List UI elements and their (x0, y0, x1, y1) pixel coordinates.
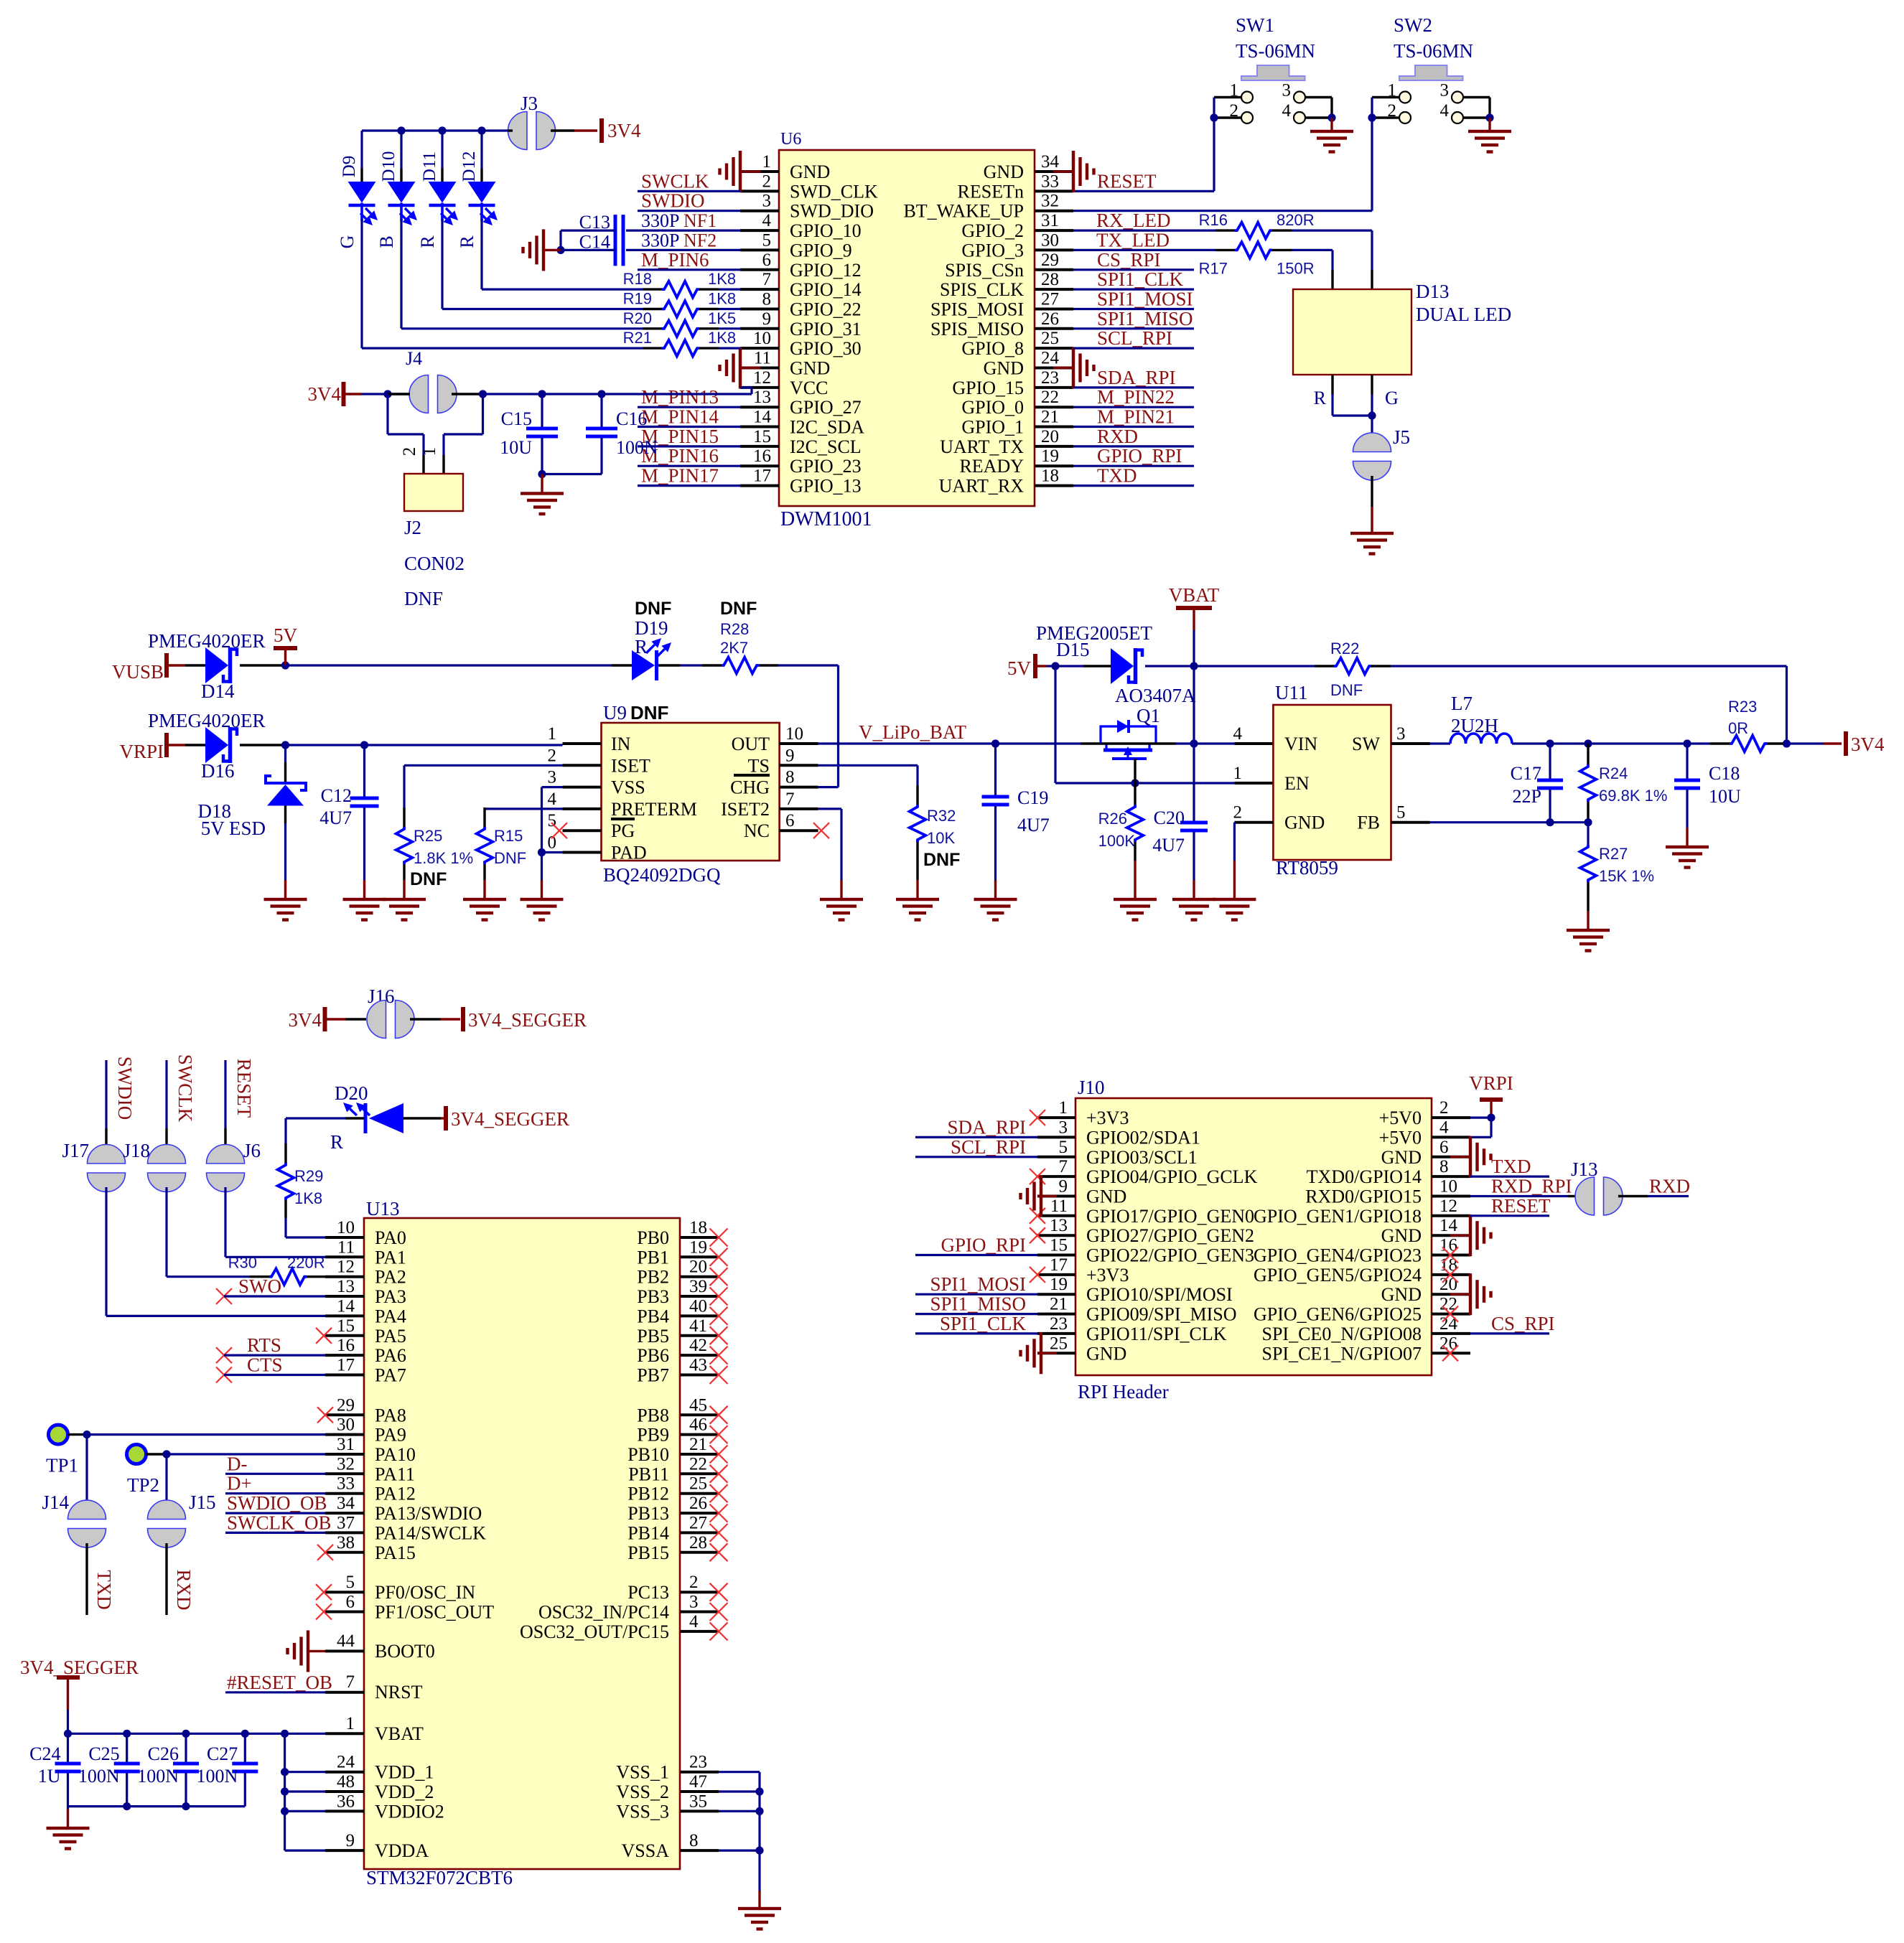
capacitor C12 4U7 (319, 745, 378, 880)
U13 pin 39 PB3 (637, 1277, 719, 1307)
svg-text:SPI_CE0_N/GPIO08: SPI_CE0_N/GPIO08 (1262, 1324, 1422, 1344)
svg-text:M_PIN17: M_PIN17 (641, 465, 719, 487)
svg-text:J18: J18 (123, 1140, 150, 1161)
svg-text:SW2: SW2 (1394, 14, 1432, 36)
svg-text:VDD_1: VDD_1 (375, 1762, 434, 1783)
svg-text:GPIO_GEN5/GPIO24: GPIO_GEN5/GPIO24 (1254, 1265, 1422, 1286)
svg-text:21: 21 (1041, 408, 1059, 427)
svg-text:GPIO_2: GPIO_2 (961, 220, 1024, 241)
svg-text:SPI1_MISO: SPI1_MISO (1097, 308, 1193, 329)
svg-text:PMEG4020ER: PMEG4020ER (148, 710, 266, 731)
svg-text:GPIO_3: GPIO_3 (961, 240, 1024, 261)
svg-text:3V4: 3V4 (1851, 734, 1885, 755)
U6 pin 26 SPIS_MISO (930, 309, 1073, 340)
svg-text:PB1: PB1 (637, 1247, 669, 1268)
U6 pin 11 GND (740, 349, 830, 379)
svg-text:43: 43 (689, 1356, 707, 1375)
net label M_PIN15 (641, 426, 719, 447)
ground at R32 (896, 880, 939, 922)
U6 pin 1 GND (740, 152, 830, 182)
ground at C20 (1172, 880, 1215, 922)
svg-text:4: 4 (689, 1612, 699, 1631)
svg-text:TXD: TXD (1491, 1156, 1531, 1177)
no-connect PB13 (710, 1504, 728, 1522)
U11 pin 2 GND (1233, 803, 1325, 833)
svg-text:D15: D15 (1056, 639, 1090, 660)
J10 pin 24 SPI_CE0_N/GPIO08 (1262, 1314, 1470, 1344)
wire R20 to pin (699, 327, 740, 329)
U13 pin 11 PA1 (325, 1237, 406, 1268)
svg-text:VUSB: VUSB (112, 661, 164, 683)
net label #RESET_OB (225, 1672, 332, 1693)
svg-text:7: 7 (1059, 1157, 1068, 1176)
junction VSS_3 (755, 1807, 763, 1815)
no-connect OSC32_IN/PC14 (710, 1603, 728, 1621)
test point TP1 (46, 1425, 78, 1476)
svg-text:SWCLK: SWCLK (174, 1054, 196, 1123)
power 3V4 at J3 (574, 118, 641, 143)
svg-text:69.8K 1%: 69.8K 1% (1599, 787, 1667, 805)
U6 pin 34 GND (984, 152, 1073, 182)
U13 pin 24 VDD_1 (325, 1753, 434, 1783)
svg-text:23: 23 (1041, 368, 1059, 388)
svg-text:3: 3 (1396, 724, 1406, 744)
svg-text:I2C_SCL: I2C_SCL (790, 436, 862, 457)
ground at J10 pin 6 (1450, 1136, 1493, 1178)
junction D11 rail (438, 126, 446, 134)
svg-text:7: 7 (346, 1672, 355, 1692)
svg-text:3V4_SEGGER: 3V4_SEGGER (20, 1657, 139, 1678)
svg-text:25: 25 (1041, 329, 1059, 348)
U13 pin 46 PB9 (637, 1415, 719, 1446)
no-connect J10 pin 7 (1030, 1169, 1045, 1184)
svg-text:100K: 100K (1098, 832, 1136, 850)
svg-text:4: 4 (1233, 724, 1243, 744)
svg-text:1K8: 1K8 (708, 270, 736, 288)
svg-text:1.8K 1%: 1.8K 1% (414, 849, 473, 867)
svg-text:3: 3 (689, 1593, 699, 1612)
svg-text:PA15: PA15 (375, 1542, 416, 1563)
svg-text:VBAT: VBAT (375, 1723, 424, 1744)
wire M_PIN6 (638, 268, 740, 271)
no-connect PB8 (710, 1406, 728, 1424)
ground at J10 pin 25 (1019, 1332, 1057, 1374)
svg-text:PA1: PA1 (375, 1247, 406, 1268)
svg-text:J4: J4 (406, 348, 422, 369)
svg-text:GND: GND (1086, 1343, 1126, 1364)
svg-text:D11: D11 (420, 151, 439, 182)
svg-text:R17: R17 (1199, 259, 1228, 277)
svg-text:U13: U13 (366, 1198, 400, 1219)
svg-text:C12: C12 (321, 785, 352, 806)
svg-text:6: 6 (762, 251, 772, 270)
net label SWDIO_OB (225, 1492, 327, 1514)
svg-text:SPI1_MOSI: SPI1_MOSI (1097, 289, 1193, 310)
resistor R24 69.8K 1% (1580, 744, 1668, 823)
net label RESET (1097, 170, 1157, 192)
svg-text:GND: GND (790, 161, 830, 182)
svg-text:12: 12 (337, 1258, 355, 1277)
svg-text:SW: SW (1352, 734, 1380, 754)
LED D11 (420, 131, 458, 225)
svg-text:R22: R22 (1330, 640, 1359, 657)
net label GPIO_RPI (915, 1235, 1037, 1256)
junction J4 left (383, 390, 391, 398)
svg-text:1: 1 (1233, 764, 1243, 783)
U13 pin 10 PA0 (325, 1218, 406, 1248)
svg-text:4: 4 (1439, 1118, 1449, 1137)
svg-text:30: 30 (1041, 230, 1059, 250)
wire M_PIN14 (638, 426, 740, 428)
U13 pin 12 PA2 (325, 1258, 406, 1288)
net label SPI1_MISO (915, 1293, 1037, 1315)
svg-text:SWCLK: SWCLK (641, 170, 709, 192)
label R (1314, 388, 1327, 408)
wire +5V0 pins (1470, 1118, 1491, 1137)
U9 pin 7 ISET2 (721, 790, 818, 820)
svg-text:39: 39 (689, 1277, 707, 1296)
U13 pin 44 BOOT0 (325, 1631, 435, 1662)
svg-text:PB10: PB10 (627, 1444, 669, 1465)
svg-text:18: 18 (689, 1218, 707, 1237)
wire C14 to pin5 (626, 249, 740, 251)
capacitor C17 22P (1511, 744, 1563, 823)
svg-text:J10: J10 (1078, 1077, 1105, 1098)
U6 pin 27 SPIS_MOSI (930, 290, 1073, 320)
svg-text:SWDIO_OB: SWDIO_OB (227, 1492, 327, 1514)
svg-text:13: 13 (753, 388, 771, 407)
U6 pin 33 RESETn (958, 172, 1073, 202)
svg-text:G: G (1385, 388, 1399, 408)
svg-text:TP1: TP1 (46, 1455, 78, 1476)
junction TP1 (83, 1431, 90, 1438)
svg-text:C18: C18 (1709, 763, 1740, 784)
svg-text:RESET: RESET (1097, 170, 1157, 192)
svg-text:PA6: PA6 (375, 1345, 406, 1366)
svg-text:NF1: NF1 (683, 210, 717, 231)
wire SWDIO to PA4 (106, 1187, 325, 1316)
U9 pin 2 ISET (548, 746, 651, 776)
svg-text:36: 36 (337, 1792, 355, 1811)
U13 pin 21 PB10 (627, 1435, 719, 1465)
svg-text:PB6: PB6 (637, 1345, 669, 1366)
net label M_PIN13 (641, 386, 719, 408)
svg-text:44: 44 (337, 1631, 355, 1651)
wire R18 to pin (699, 288, 740, 290)
solder jumper J4 (388, 348, 483, 413)
svg-text:1U: 1U (38, 1766, 61, 1787)
no-connect PB6 (710, 1347, 728, 1364)
svg-text:PB0: PB0 (637, 1227, 669, 1248)
svg-text:30: 30 (337, 1415, 355, 1435)
svg-text:GND: GND (1086, 1186, 1126, 1207)
svg-text:C16: C16 (616, 408, 647, 429)
svg-text:PA2: PA2 (375, 1267, 406, 1288)
power VRPI input (119, 733, 185, 762)
svg-text:PA4: PA4 (375, 1306, 406, 1326)
J10 pin 2 +5V0 (1379, 1098, 1470, 1128)
svg-text:GPIO_14: GPIO_14 (790, 279, 862, 300)
power 3V4_SEGGER at J16 (441, 1007, 587, 1031)
svg-text:TP2: TP2 (127, 1474, 159, 1496)
net label V_LiPo_BAT (859, 721, 967, 743)
switch SW2 TS-06MN (1368, 14, 1493, 123)
ground at J5 (1350, 507, 1394, 556)
U11 pin 5 FB (1357, 803, 1429, 833)
no-connect PB15 (710, 1543, 728, 1561)
svg-text:RXD_RPI: RXD_RPI (1491, 1176, 1572, 1197)
U6 pin 31 GPIO_2 (961, 211, 1073, 241)
LED D12 (459, 131, 498, 225)
svg-text:GPIO_15: GPIO_15 (952, 378, 1024, 398)
ground at U11 GND (1213, 861, 1256, 922)
svg-text:1: 1 (762, 152, 772, 172)
svg-text:DWM1001: DWM1001 (780, 508, 872, 530)
svg-text:3: 3 (548, 768, 557, 787)
capacitor C26 100N (137, 1733, 199, 1806)
svg-text:0R: 0R (1728, 719, 1748, 737)
wire R22 down to 3V4 node (1786, 666, 1788, 744)
svg-text:14: 14 (753, 408, 772, 427)
svg-text:C24: C24 (29, 1743, 60, 1764)
net label SWCLK (641, 170, 709, 192)
U9 PG overline (611, 818, 635, 820)
svg-text:DNF: DNF (404, 588, 443, 609)
U9 pin 4 PRETERM (548, 790, 697, 820)
svg-text:21: 21 (689, 1435, 707, 1454)
svg-text:RXD: RXD (173, 1569, 195, 1610)
svg-text:33: 33 (337, 1474, 355, 1494)
wire VBAT rail (68, 1733, 326, 1735)
svg-text:SDA_RPI: SDA_RPI (1097, 367, 1176, 388)
svg-text:SPI1_MOSI: SPI1_MOSI (930, 1273, 1026, 1295)
svg-text:D+: D+ (227, 1473, 252, 1494)
wire D9 to resistor (362, 219, 662, 348)
J10 pin 6 GND (1381, 1138, 1470, 1168)
wire C13/C14 left join (561, 230, 615, 250)
U13 pin 37 PA14/SWCLK (325, 1513, 486, 1543)
svg-text:VDDIO2: VDDIO2 (375, 1801, 444, 1822)
svg-text:1: 1 (1059, 1098, 1068, 1118)
J10 pin 16 GPIO_GEN4/GPIO23 (1254, 1236, 1470, 1266)
svg-text:GND: GND (984, 358, 1024, 379)
junction C14 gnd (556, 246, 564, 254)
svg-text:PA12: PA12 (375, 1484, 416, 1504)
J10 pin 10 RXD0/GPIO15 (1305, 1177, 1470, 1207)
svg-text:TXD: TXD (93, 1570, 115, 1610)
svg-text:3: 3 (1440, 81, 1450, 100)
U6 pin 28 SPIS_CLK (940, 270, 1073, 300)
diode D16 PMEG4020ER (148, 710, 286, 782)
diode D14 PMEG4020ER (148, 630, 286, 702)
J2 pin number 2 (400, 447, 419, 457)
J10 pin 12 GPIO_GEN1/GPIO18 (1254, 1197, 1470, 1227)
svg-text:21: 21 (1050, 1295, 1068, 1314)
wire 5V rail to D19 (286, 664, 612, 666)
wire D13 G lead (1371, 375, 1373, 416)
U13 pin 42 PB6 (637, 1336, 719, 1366)
svg-text:100N: 100N (78, 1766, 120, 1787)
svg-text:25: 25 (689, 1474, 707, 1494)
power VRPI at J10 (1469, 1072, 1513, 1118)
capacitor C13 330P (579, 210, 680, 246)
U6 pin 13 GPIO_27 (740, 388, 862, 418)
svg-text:15: 15 (1050, 1236, 1068, 1255)
svg-text:RESETn: RESETn (958, 181, 1024, 202)
U13 pin 36 VDDIO2 (325, 1792, 444, 1822)
svg-text:+3V3: +3V3 (1086, 1265, 1129, 1286)
svg-text:PA7: PA7 (375, 1365, 406, 1386)
svg-text:VSS_2: VSS_2 (616, 1782, 669, 1802)
svg-text:D16: D16 (201, 760, 235, 782)
net label SPI1_CLK (1073, 268, 1194, 290)
U6 pin 25 GPIO_8 (961, 329, 1073, 359)
svg-text:32: 32 (337, 1454, 355, 1474)
svg-text:48: 48 (337, 1772, 355, 1792)
capacitor C16 100N (542, 394, 658, 474)
svg-text:PB2: PB2 (637, 1267, 669, 1288)
net label SPI1_MOSI (1073, 289, 1194, 310)
no-connect PC13 (710, 1583, 728, 1601)
svg-text:330P: 330P (641, 210, 679, 231)
U6 pin 2 SWD_CLK (740, 172, 878, 202)
svg-text:GPIO_31: GPIO_31 (790, 319, 862, 340)
no-connect J10 pin 26 (1442, 1345, 1458, 1361)
solder jumper J16 (345, 985, 441, 1039)
wire M_PIN17 (638, 484, 740, 487)
svg-text:PB9: PB9 (637, 1425, 669, 1446)
LED D20 R (286, 1082, 441, 1153)
svg-text:PMEG2005ET: PMEG2005ET (1036, 622, 1153, 644)
U6 pin 12 VCC (740, 368, 828, 398)
svg-text:SWCLK_OB: SWCLK_OB (227, 1512, 332, 1533)
svg-text:15: 15 (337, 1316, 355, 1336)
junction VDD_1 (281, 1768, 289, 1776)
svg-text:19: 19 (1041, 446, 1059, 466)
svg-text:35: 35 (689, 1792, 707, 1811)
wire SWCLK to R30 (167, 1187, 269, 1277)
svg-text:100N: 100N (616, 437, 658, 458)
wire SWDIO (638, 210, 740, 212)
transistor Q1 AO3407A (1081, 705, 1194, 783)
J10 pin 5 GPIO03/SCL1 (1037, 1138, 1198, 1168)
svg-text:32: 32 (1041, 192, 1059, 211)
svg-text:SPI1_CLK: SPI1_CLK (940, 1313, 1027, 1334)
svg-text:GND: GND (1381, 1284, 1422, 1305)
svg-text:RXD: RXD (1649, 1176, 1690, 1197)
svg-text:VSSA: VSSA (622, 1840, 670, 1861)
svg-text:VDD_2: VDD_2 (375, 1782, 434, 1802)
U11 pin 4 VIN (1233, 724, 1318, 754)
wire VCC rail (483, 388, 752, 394)
svg-text:2: 2 (689, 1573, 699, 1592)
wire 3V4 to J4 (361, 393, 409, 395)
svg-text:4: 4 (548, 790, 557, 809)
svg-text:B: B (376, 235, 397, 248)
svg-text:9: 9 (785, 746, 795, 765)
junction VBAT rail (64, 1730, 72, 1738)
U6 pin 16 GPIO_23 (740, 446, 862, 477)
wire PRETERM to R15 (485, 807, 563, 827)
no-connect J10 pin 13 (1030, 1227, 1045, 1243)
svg-text:U9: U9 (603, 702, 627, 724)
no-connect J10 pin 11 (1030, 1208, 1045, 1224)
ground at C18 (1666, 828, 1709, 869)
svg-text:1K8: 1K8 (294, 1189, 322, 1207)
svg-text:OSC32_OUT/PC15: OSC32_OUT/PC15 (520, 1621, 669, 1642)
J10 pin 26 SPI_CE1_N/GPIO07 (1262, 1334, 1470, 1364)
svg-text:330P: 330P (641, 230, 679, 251)
junction cap rail C26 (182, 1802, 190, 1810)
svg-text:GPIO_0: GPIO_0 (961, 397, 1024, 418)
svg-text:R28: R28 (720, 620, 749, 638)
J10 pin 25 GND (1037, 1334, 1126, 1364)
power 5V at D15 (1007, 654, 1047, 679)
U6 pin 5 GPIO_9 (740, 230, 852, 261)
U13 pin 26 PB13 (627, 1494, 719, 1524)
solder jumper J17 (62, 1060, 125, 1192)
svg-text:5: 5 (1396, 803, 1406, 823)
svg-text:RESET: RESET (1491, 1195, 1551, 1217)
ground at C15/C16 (521, 474, 564, 516)
svg-text:J6: J6 (243, 1140, 261, 1161)
solder jumper J18 (123, 1060, 185, 1192)
svg-text:PF1/OSC_OUT: PF1/OSC_OUT (375, 1602, 494, 1623)
wire OUT rail (818, 742, 1081, 744)
U13 pin 17 PA7 (325, 1356, 406, 1386)
no-connect PA8 (317, 1407, 333, 1423)
svg-text:R23: R23 (1728, 698, 1757, 716)
junction C17 top (1546, 739, 1554, 747)
IC U6 DWM1001 body (779, 130, 1035, 530)
svg-text:22: 22 (1041, 388, 1059, 407)
svg-text:40: 40 (689, 1296, 707, 1316)
svg-text:3V4_SEGGER: 3V4_SEGGER (451, 1108, 569, 1130)
svg-text:PA11: PA11 (375, 1464, 415, 1484)
wire J2 branch right (444, 394, 483, 474)
svg-text:TS-06MN: TS-06MN (1394, 40, 1473, 62)
wire TS to R32 (818, 765, 918, 805)
wire ISET to R25 (404, 765, 563, 827)
svg-text:GPIO_8: GPIO_8 (961, 338, 1024, 359)
U9 pin 5 PG (548, 811, 635, 841)
connector J10 RPI Header (1075, 1077, 1432, 1403)
no-connect PB7 (710, 1366, 728, 1384)
TVS diode D18 5V ESD (198, 745, 307, 880)
svg-text:SPI_CE1_N/GPIO07: SPI_CE1_N/GPIO07 (1262, 1343, 1422, 1364)
wire LED top rail (362, 129, 508, 131)
no-connect J10 pin 17 (1030, 1267, 1045, 1283)
net label CTS + wire PA7 (216, 1354, 325, 1383)
J10 pin 13 GPIO27/GPIO_GEN2 (1037, 1216, 1254, 1246)
svg-text:2: 2 (1439, 1098, 1449, 1118)
J10 pin 7 GPIO04/GPIO_GCLK (1037, 1157, 1258, 1187)
svg-text:26: 26 (689, 1494, 707, 1513)
svg-text:BQ24092DGQ: BQ24092DGQ (603, 864, 721, 886)
power VUSB input (112, 653, 185, 683)
wire J2 branch left (388, 394, 424, 474)
power VBAT (1169, 584, 1220, 666)
net label RXD_RPI (1491, 1176, 1572, 1197)
U13 pin 30 PA9 (325, 1415, 406, 1446)
svg-text:4: 4 (1440, 101, 1450, 121)
ground at J10 pin 20 (1450, 1273, 1493, 1315)
svg-text:C26: C26 (148, 1743, 179, 1764)
junction 5V/EN (1051, 662, 1059, 670)
svg-text:SWD_DIO: SWD_DIO (790, 201, 874, 222)
svg-text:VSS_1: VSS_1 (616, 1762, 669, 1783)
U13 pin 47 VSS_2 (616, 1772, 719, 1802)
